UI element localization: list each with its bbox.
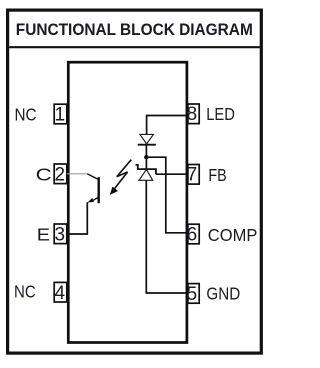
wire emitter to pin3 <box>67 202 88 234</box>
wire collector diagonal <box>87 174 98 180</box>
IC package outline <box>68 62 187 342</box>
svg-text:3: 3 <box>55 224 66 245</box>
phototransistor Q1 emitter arrowhead <box>87 198 94 203</box>
junction node dot <box>144 155 148 159</box>
shunt reference D2 cathode bar with ticks <box>136 165 156 174</box>
phototransistor Q1 base bar <box>97 177 99 203</box>
wire pin8 to LED anode <box>147 116 188 135</box>
wire reference to pin7 <box>156 173 188 175</box>
pin 1 box <box>54 104 67 124</box>
svg-text:5: 5 <box>187 284 198 305</box>
svg-text:FUNCTIONAL BLOCK DIAGRAM: FUNCTIONAL BLOCK DIAGRAM <box>16 21 253 39</box>
pin 5 box <box>188 284 199 304</box>
wire anode to pin5 <box>146 180 188 293</box>
outer frame <box>8 10 262 353</box>
wire node to pin6 <box>146 157 188 233</box>
svg-text:COMP: COMP <box>208 225 258 245</box>
svg-text:LED: LED <box>206 104 235 124</box>
svg-text:C: C <box>36 164 52 184</box>
svg-text:2: 2 <box>55 164 66 185</box>
svg-text:NC: NC <box>14 281 36 301</box>
pin 4 box <box>54 282 67 302</box>
pin 2 box <box>54 164 67 184</box>
svg-text:E: E <box>37 224 50 244</box>
phototransistor Q1 emitter line <box>92 197 99 201</box>
title separator line <box>9 46 260 48</box>
svg-text:FB: FB <box>208 165 226 185</box>
LED D1 triangle <box>140 134 154 143</box>
pin 7 box <box>188 165 199 185</box>
svg-text:6: 6 <box>187 224 198 245</box>
svg-text:GND: GND <box>206 283 240 303</box>
svg-text:4: 4 <box>55 283 66 304</box>
light arrowhead <box>110 187 118 195</box>
svg-text:8: 8 <box>187 104 198 125</box>
pin 6 box <box>188 224 199 244</box>
pin 8 box <box>188 104 199 124</box>
svg-text:1: 1 <box>55 105 66 126</box>
light coupling arrow (lightning bolt) <box>113 160 132 191</box>
LED D1 cathode bar <box>138 144 156 146</box>
svg-text:NC: NC <box>15 104 37 124</box>
wire pin2 to collector (grey segment) <box>67 173 88 175</box>
shunt reference D2 triangle <box>139 169 153 180</box>
pin 3 box <box>54 224 67 244</box>
wire LED cathode to shunt reference <box>145 145 147 169</box>
svg-text:7: 7 <box>187 165 198 186</box>
